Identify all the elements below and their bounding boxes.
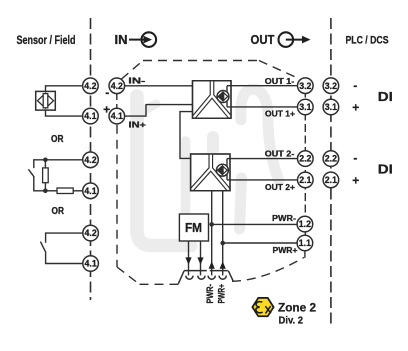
arrow FM output 2 (down) [197, 257, 203, 264]
svg-text:4.1: 4.1 [84, 111, 96, 121]
junction node A [43, 158, 48, 163]
svg-text:4.2: 4.2 [85, 228, 97, 238]
plug connector X1 (socket row) [178, 271, 233, 284]
terminal 4.1 (field, ch.1) [83, 108, 99, 124]
svg-text:IN-: IN- [128, 75, 145, 85]
svg-text:PLC / DCS: PLC / DCS [346, 35, 389, 47]
svg-text:OUT: OUT [251, 33, 275, 47]
svg-text:1.1: 1.1 [299, 238, 311, 248]
svg-text:4.2: 4.2 [84, 155, 96, 165]
svg-text:OUT 2-: OUT 2- [265, 148, 295, 158]
wire OUT 2+ (U2 to terminal 2.1) [227, 179, 298, 181]
terminal 3.2 (device OUT1-) [298, 78, 314, 94]
arrow PWR- (up) [209, 261, 215, 268]
svg-text:IN: IN [115, 33, 128, 47]
wire node A to terminal 4.2 [45, 159, 82, 161]
svg-text:OUT 1-: OUT 1- [265, 76, 295, 86]
wire IN+ (terminal 4.1 to isolator U1) [125, 105, 193, 117]
svg-text:3.1: 3.1 [299, 102, 311, 112]
arrow PWR+ (up) [220, 261, 226, 268]
wire sensor B1 minus to terminal 4.1 [46, 110, 83, 116]
svg-text:2.1: 2.1 [325, 175, 337, 185]
svg-text:4.1: 4.1 [111, 111, 123, 121]
svg-text:-: - [353, 78, 357, 92]
svg-text:+: + [352, 101, 359, 115]
svg-text:2.2: 2.2 [325, 154, 337, 164]
terminal 4.2 (field, option 2) [83, 152, 99, 168]
svg-text:PWR+: PWR+ [216, 284, 227, 304]
svg-text:DI: DI [378, 163, 393, 177]
wire PWR- feed (U2 to connector) [211, 191, 213, 276]
svg-text:PWR-: PWR- [272, 213, 296, 223]
wire OUT 1+ (U1 to terminal 3.1) [227, 106, 298, 108]
svg-text:2.1: 2.1 [299, 175, 311, 185]
sensor B1 (NAMUR proximity sensor) [36, 91, 56, 110]
svg-text:3.1: 3.1 [325, 102, 337, 112]
junction node B [43, 189, 48, 194]
svg-text:4.2: 4.2 [84, 81, 96, 91]
terminal 3.1 (device OUT1+) [298, 99, 314, 115]
svg-text:3.2: 3.2 [299, 81, 311, 91]
svg-text:-: - [353, 151, 357, 165]
switch S2 [40, 233, 82, 263]
svg-text:4.2: 4.2 [111, 81, 123, 91]
wire FM output 2 to connector [200, 241, 202, 275]
svg-text:PWR+: PWR+ [273, 245, 298, 255]
wire OUT 2- (U2 to terminal 2.2) [227, 158, 298, 160]
terminal 4.2 (field, option 3) [83, 225, 99, 241]
node IN (input port symbol) [115, 32, 157, 47]
wire IN- (terminal 4.2 to isolator U1) [125, 85, 193, 87]
wire FM output 1 to connector [188, 241, 190, 275]
svg-text:DI: DI [378, 90, 393, 104]
terminal 4.2 (device IN-) [109, 78, 125, 94]
terminal 2.2 (PLC) [323, 151, 339, 167]
fault monitoring module FM [179, 214, 208, 241]
svg-text:Div. 2: Div. 2 [279, 315, 304, 326]
svg-text:FM: FM [185, 221, 202, 235]
terminal 1.2 (device PWR-) [297, 216, 313, 232]
svg-text:Sensor / Field: Sensor / Field [17, 33, 76, 47]
terminal 1.1 (device PWR+) [297, 235, 313, 251]
svg-text:OUT 2+: OUT 2+ [265, 182, 295, 192]
terminal 4.1 (device IN+) [109, 108, 125, 124]
svg-text:OUT 1+: OUT 1+ [265, 108, 295, 118]
svg-text:OR: OR [51, 134, 64, 145]
terminal 3.1 (PLC) [323, 99, 339, 115]
Ex marking (ATEX hexagon) [252, 298, 273, 316]
terminal 4.1 (field, option 2) [83, 183, 99, 199]
node OUT (output port symbol) [251, 32, 311, 47]
svg-text:4.1: 4.1 [84, 186, 96, 196]
terminal 4.2 (field, ch.1) [83, 78, 99, 94]
terminal 2.1 (PLC) [323, 172, 339, 188]
isolation amplifier U1 [193, 81, 232, 119]
svg-text:OR: OR [52, 206, 65, 217]
svg-text:+: + [103, 103, 110, 117]
zone boundary line (PLC/DCS side) [330, 18, 332, 325]
svg-text:+: + [352, 173, 359, 187]
wire sensor B1 plus to terminal 4.2 [46, 86, 83, 92]
switch S1 [28, 160, 45, 191]
svg-text:4.1: 4.1 [85, 259, 97, 269]
resistor R2 [45, 188, 82, 194]
svg-text:-: - [105, 85, 109, 99]
device enclosure dashed outline [117, 61, 305, 285]
terminal 2.2 (device OUT2-) [298, 151, 314, 167]
wire PWR- to terminal 1.2 [212, 223, 297, 225]
svg-text:3.2: 3.2 [325, 81, 337, 91]
svg-text:PWR-: PWR- [205, 284, 216, 304]
terminal 2.1 (device OUT2+) [298, 172, 314, 188]
resistor R1 [43, 160, 49, 191]
isolation amplifier U2 [191, 154, 230, 191]
wire PWR+ feed (U2 to connector) [222, 191, 224, 276]
wire PWR+ to terminal 1.1 [223, 242, 297, 244]
zone boundary line (Sensor/Field side) [90, 18, 92, 300]
wire channel link U1 to U2 [180, 112, 193, 159]
svg-text:2.2: 2.2 [299, 154, 311, 164]
terminal 3.2 (PLC) [323, 78, 339, 94]
arrow FM output 1 (down) [185, 257, 191, 264]
svg-text:Zone 2: Zone 2 [278, 301, 316, 315]
wire OUT 1- (U1 to terminal 3.2) [227, 85, 298, 87]
terminal 4.1 (field, option 3) [83, 256, 99, 272]
junction PWR- [209, 222, 214, 227]
svg-text:1.2: 1.2 [299, 219, 311, 229]
junction PWR+ [220, 241, 225, 246]
svg-text:IN+: IN+ [129, 119, 147, 129]
